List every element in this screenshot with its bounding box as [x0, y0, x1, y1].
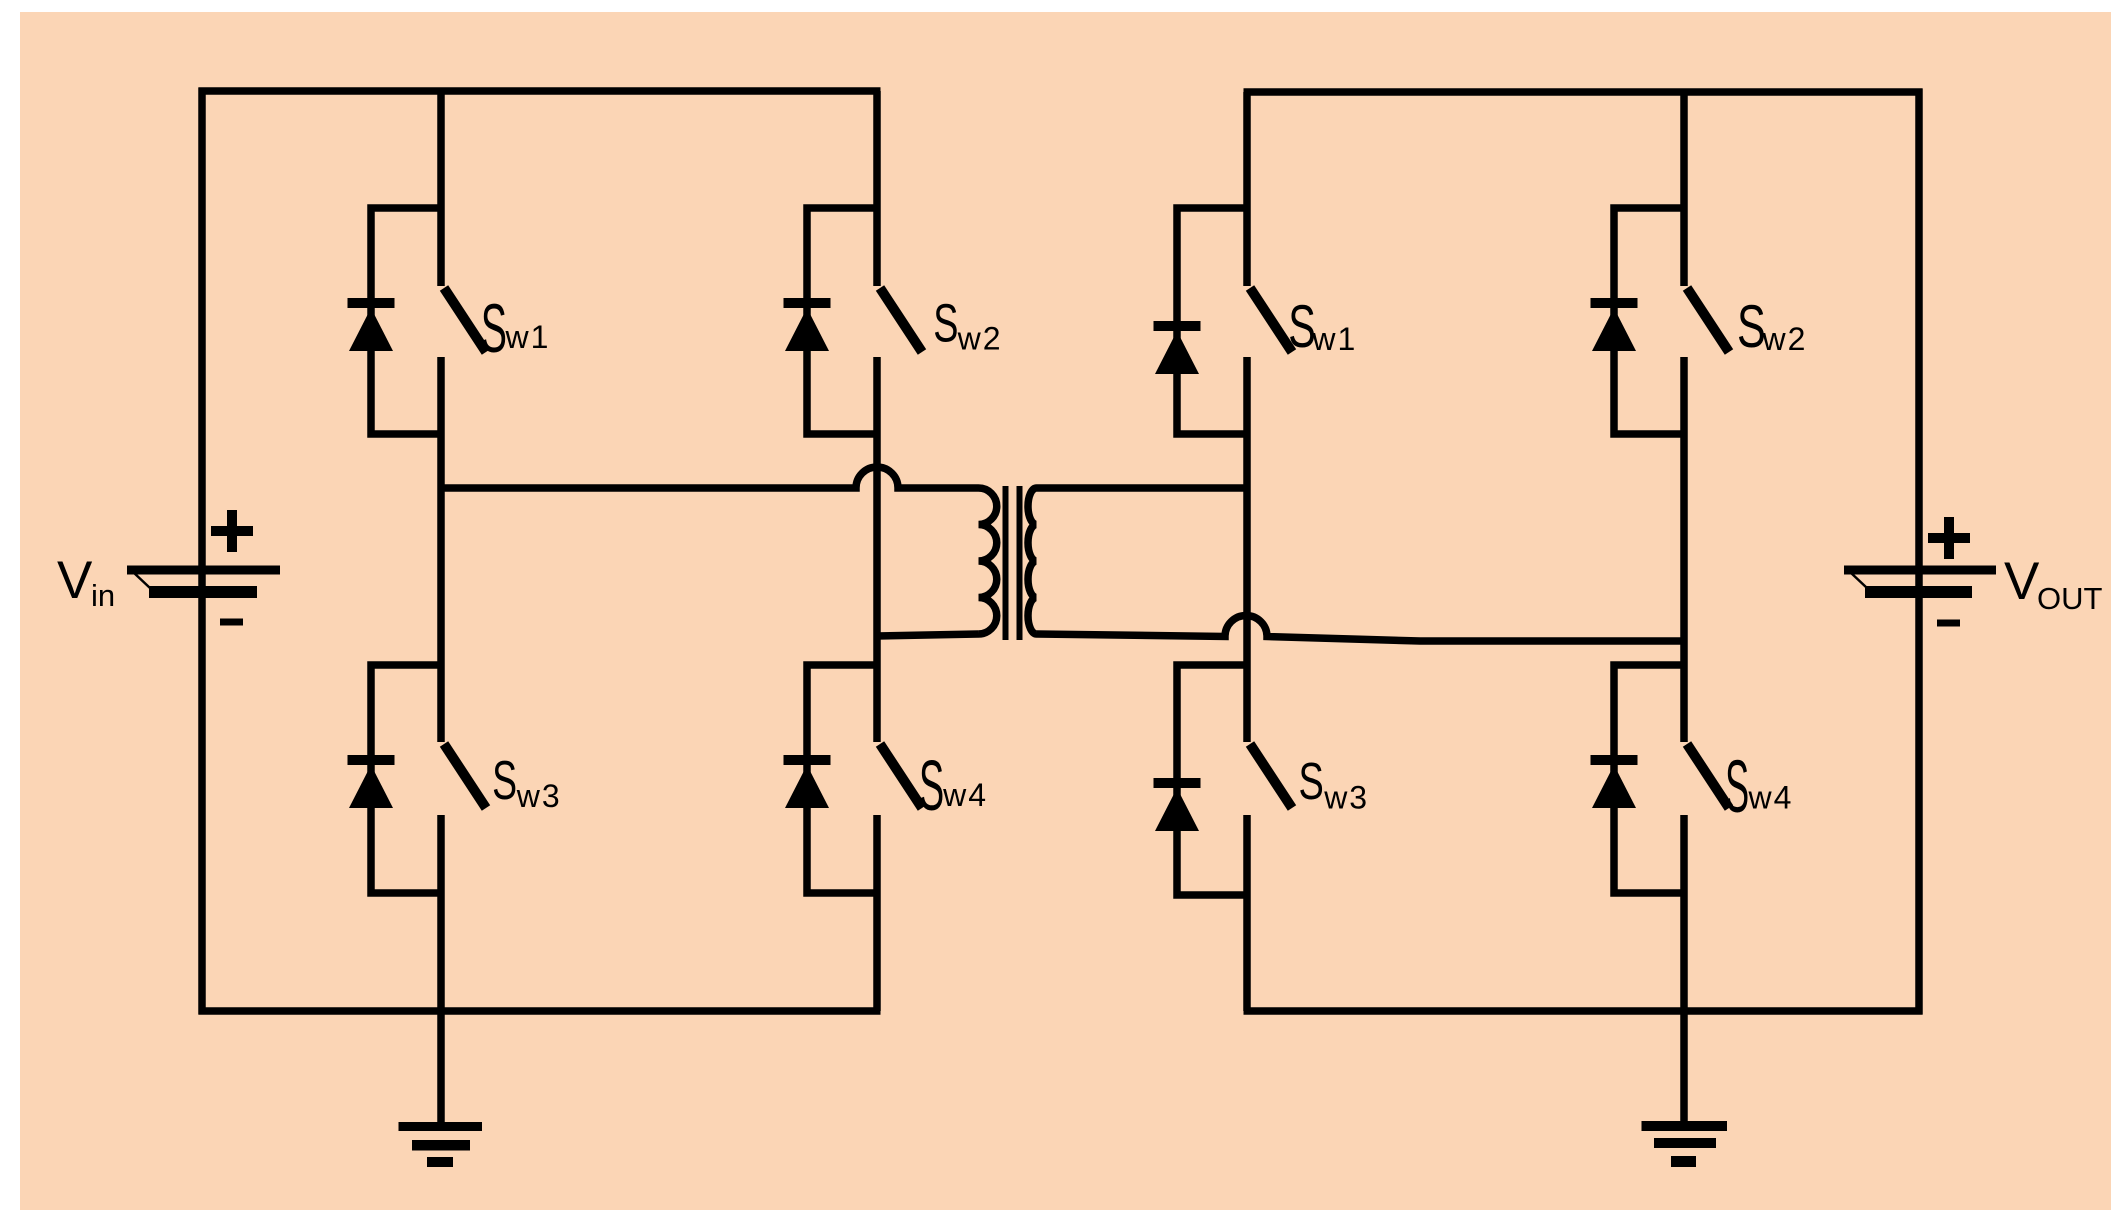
wire: diode loop of Sw1 (output)	[1177, 208, 1247, 434]
wire: leg A mid segment (Sw1-Sw3 node)	[437, 357, 445, 742]
wire: diode loop of Sw3 (input)	[371, 665, 441, 893]
battery Vout	[1844, 517, 1996, 623]
switch Sw4 (input) blade	[880, 744, 922, 808]
wire: transformer secondary top to leg C node	[1037, 484, 1248, 492]
wire: left rail (Vin positive)	[198, 88, 206, 1015]
wire: leg A top segment (Sw1 drain)	[437, 91, 445, 286]
switch Sw3 (output) blade	[1250, 744, 1292, 808]
wire: bottom bus of input bridge	[199, 1007, 881, 1015]
wire: leg C top segment (Sw1 drain, output)	[1243, 92, 1251, 286]
transformer T1 core	[1006, 486, 1020, 640]
wire: diode loop of Sw3 (output)	[1177, 665, 1247, 895]
svg-text:S: S	[919, 746, 944, 826]
wire: leg B bottom segment (Sw4 source)	[873, 815, 881, 1011]
svg-text:in: in	[91, 578, 115, 613]
switch Sw4 (output) blade	[1687, 744, 1729, 808]
ground (output bridge)	[1642, 1011, 1728, 1167]
diode of Sw3 (output) (antiparallel)	[1154, 778, 1201, 831]
transformer T1 secondary winding	[1028, 488, 1037, 634]
wire: leg C bottom segment (Sw3 source, output)	[1243, 815, 1251, 1011]
svg-text:w1: w1	[505, 319, 551, 355]
wire: leg D bottom segment (Sw4 source, output)	[1680, 815, 1688, 1011]
switch Sw2 (input) blade	[880, 288, 922, 352]
svg-text:w2: w2	[957, 321, 1003, 357]
svg-text:S: S	[492, 749, 517, 811]
svg-text:w3: w3	[516, 778, 562, 814]
wire: top bus of input bridge	[199, 87, 881, 95]
svg-text:w3: w3	[1323, 780, 1369, 816]
svg-text:V: V	[57, 551, 93, 610]
diode of Sw3 (input) (antiparallel)	[348, 755, 395, 808]
wire: diode loop of Sw2 (input)	[807, 208, 877, 434]
wire: diode loop of Sw2 (output)	[1614, 208, 1684, 434]
switch Sw3 (input) blade	[444, 744, 486, 808]
wire: leg C mid segment (Sw1-Sw3 node, output)	[1243, 357, 1251, 742]
wire: top bus of output bridge	[1244, 88, 1923, 96]
wire: diode loop of Sw4 (input)	[807, 665, 877, 893]
svg-text:S: S	[1299, 752, 1324, 810]
diode of Sw4 (output) (antiparallel)	[1591, 755, 1638, 808]
wire: leg B mid segment (Sw2-Sw4 node)	[873, 357, 881, 742]
battery Vin	[127, 510, 280, 622]
wire: right rail (Vout positive)	[1915, 89, 1923, 1015]
diode of Sw2 (output) (antiparallel)	[1591, 298, 1638, 351]
wire: transformer primary bottom to leg B node	[877, 634, 979, 636]
svg-text:V: V	[2004, 552, 2040, 611]
switch Sw2 (output) blade	[1687, 288, 1729, 352]
svg-text:S: S	[933, 293, 958, 353]
svg-text:w4: w4	[1748, 780, 1794, 816]
wire: leg D top segment (Sw2 drain, output)	[1680, 92, 1688, 286]
wire: transformer secondary bottom to leg D node (hops leg C)	[1037, 616, 1685, 642]
diode of Sw4 (input) (antiparallel)	[784, 755, 831, 808]
ground (input bridge)	[399, 1011, 483, 1167]
svg-text:w1: w1	[1311, 321, 1357, 357]
switch Sw1 (input) blade	[444, 288, 486, 352]
wire: leg A bottom segment (Sw3 source)	[437, 815, 445, 1011]
wire: leg B top segment (Sw2 drain)	[873, 91, 881, 286]
transformer T1 primary winding	[979, 488, 997, 634]
svg-text:w2: w2	[1762, 321, 1808, 357]
diode of Sw2 (input) (antiparallel)	[784, 298, 831, 351]
wire: diode loop of Sw4 (output)	[1614, 665, 1684, 893]
diode of Sw1 (output) (antiparallel)	[1154, 321, 1201, 374]
wire: diode loop of Sw1 (input)	[371, 208, 441, 434]
diode of Sw1 (input) (antiparallel)	[348, 298, 395, 351]
wire: node A to transformer primary top (hops leg B)	[441, 467, 979, 488]
svg-text:S: S	[1737, 294, 1766, 361]
svg-text:w4: w4	[942, 777, 988, 813]
svg-text:S: S	[481, 289, 507, 366]
svg-text:S: S	[1725, 746, 1749, 829]
wire: leg D mid segment (Sw2-Sw4 node, output)	[1680, 357, 1688, 742]
svg-text:OUT: OUT	[2037, 581, 2103, 616]
switch Sw1 (output) blade	[1250, 288, 1292, 352]
wire: bottom bus of output bridge	[1244, 1007, 1923, 1015]
